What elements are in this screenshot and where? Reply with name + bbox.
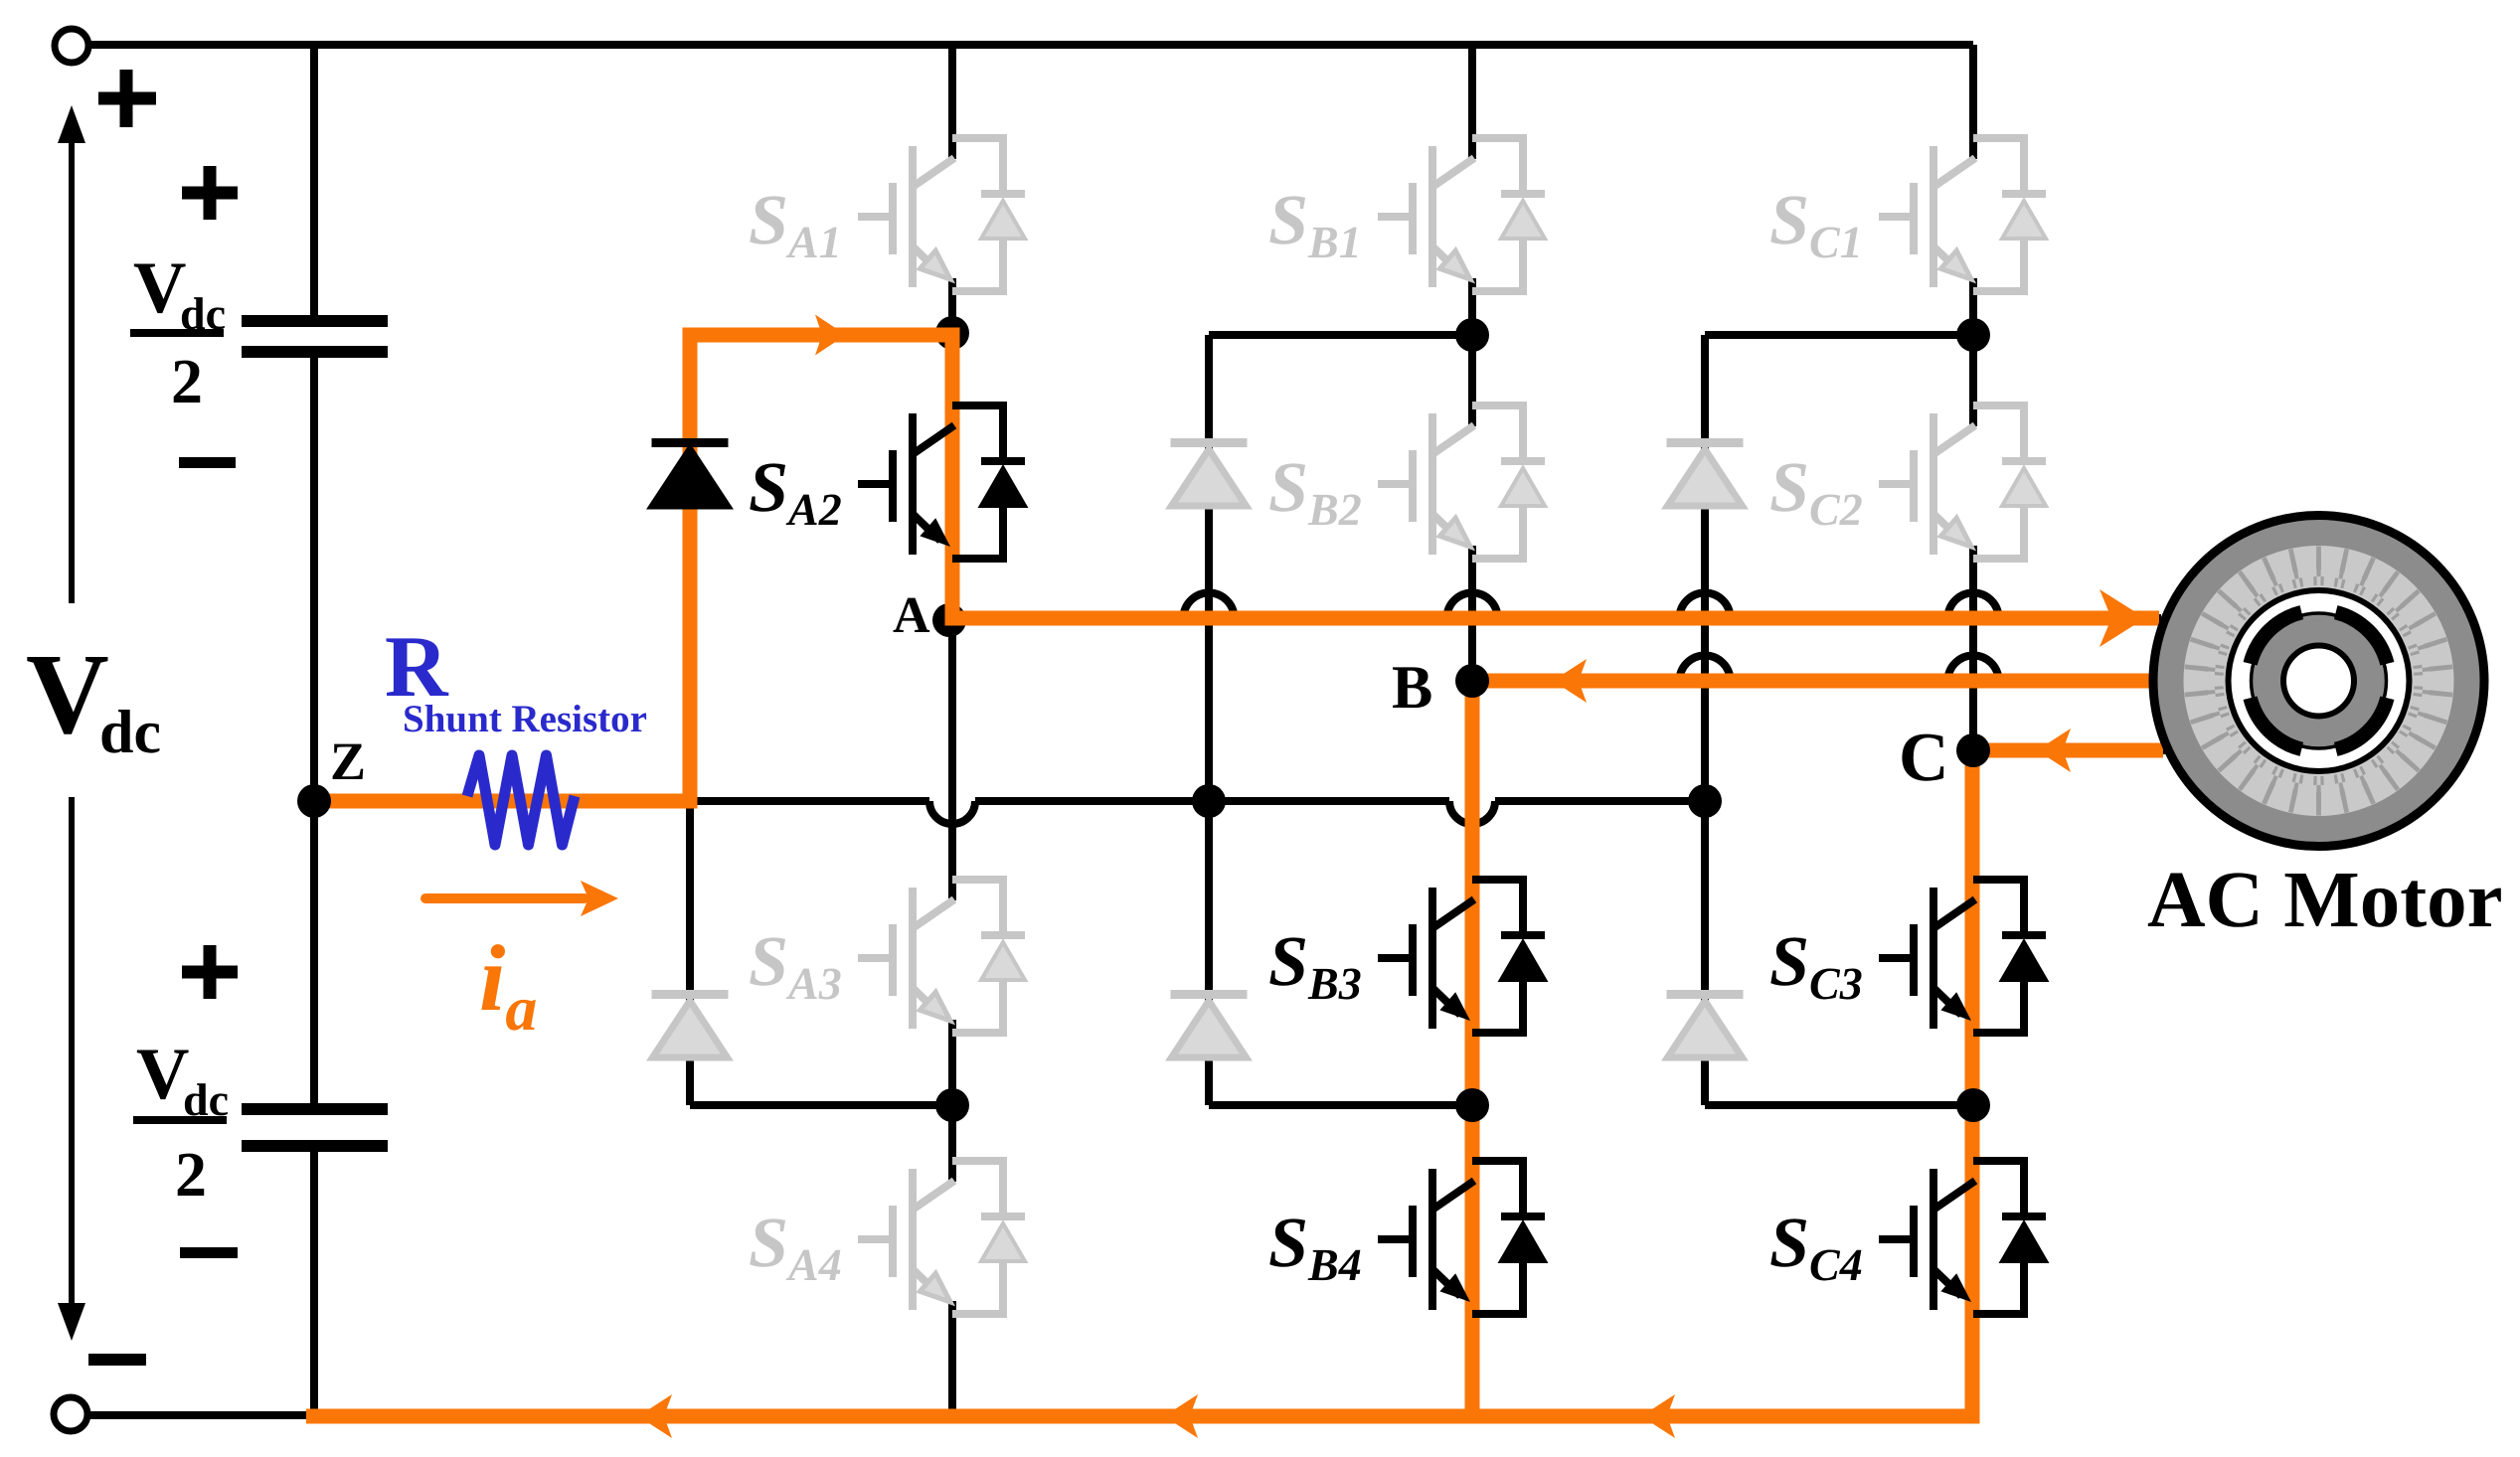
svg-text:SC1: SC1	[1769, 180, 1863, 267]
svg-text:dc: dc	[99, 699, 161, 766]
IGBT S_C3	[1879, 880, 2046, 1033]
capacitor C2 (lower Vdc/2)	[242, 1103, 388, 1152]
IGBT S_B1	[1378, 138, 1545, 291]
wire hop A-line at 1216	[1184, 593, 1235, 618]
node at (1985,755)	[1956, 733, 1990, 767]
node at (958,337)	[935, 316, 969, 350]
wire bottom bus	[87, 1411, 1973, 1419]
IGBT S_B2	[1378, 405, 1545, 559]
svg-text:A: A	[893, 587, 930, 644]
clamp diode DC1	[1667, 443, 1744, 507]
svg-text:SB4: SB4	[1268, 1203, 1362, 1290]
wire clamp bottom jog A	[690, 1101, 952, 1109]
svg-text:SB1: SB1	[1268, 180, 1362, 267]
wire hop neutral at leg A	[929, 801, 975, 824]
IGBT S_C4	[1879, 1161, 2046, 1314]
node at (1985,1112)	[1956, 1088, 1990, 1122]
node at (1481,1112)	[1455, 1088, 1489, 1122]
wire hop A-line at 1985	[1948, 593, 1999, 618]
Vdc arrow lower	[69, 797, 75, 1304]
IGBT S_A4	[858, 1161, 1025, 1314]
orange arrow phase A	[2100, 589, 2145, 647]
svg-text:Shunt Resistor: Shunt Resistor	[403, 698, 647, 740]
clamp diode DC2	[1667, 995, 1744, 1058]
IGBT S_A1	[858, 138, 1025, 291]
IGBT S_C2	[1879, 405, 2046, 559]
orange arrow on top jog	[815, 315, 846, 356]
wire orange path motor to C to bottom return	[306, 750, 2163, 1416]
wire clamp top jog B	[1209, 331, 1472, 339]
IGBT S_C1	[1879, 138, 2046, 291]
wire clamp branch B vertical	[1205, 335, 1213, 1105]
label Vdc main	[26, 631, 161, 766]
minus capacitor C1	[179, 457, 236, 468]
node at (1481,685)	[1455, 664, 1489, 698]
svg-text:C: C	[1899, 720, 1949, 796]
wire clamp top jog C	[1705, 331, 1973, 339]
wire hop A-line at 1715	[1680, 593, 1731, 618]
svg-text:SC2: SC2	[1769, 447, 1863, 535]
label Vdc/2 lower	[133, 1034, 229, 1210]
svg-text:SC3: SC3	[1769, 921, 1863, 1009]
svg-text:V: V	[133, 247, 186, 329]
terminal DC-	[54, 1397, 87, 1431]
clamp diode DA2	[652, 995, 729, 1058]
node A at (958,622)	[932, 603, 966, 637]
wire left DC bus	[310, 45, 318, 1416]
wire leg C vertical segments	[1969, 45, 1977, 1416]
svg-text:SB2: SB2	[1268, 447, 1362, 535]
IGBT S_B4	[1378, 1161, 1545, 1314]
wire clamp top jog A	[690, 331, 952, 339]
wire clamp branch C vertical	[1701, 335, 1709, 1105]
plus capacitor C1	[182, 166, 238, 220]
svg-text:B: B	[1392, 654, 1432, 722]
svg-text:SB3: SB3	[1268, 921, 1362, 1009]
wire hop B-line at 1715	[1680, 656, 1731, 682]
wire clamp bottom jog C	[1705, 1101, 1973, 1109]
IGBT S_A3	[858, 880, 1025, 1033]
node at (1715,806)	[1688, 784, 1722, 818]
svg-text:AC Motor: AC Motor	[2147, 855, 2503, 944]
svg-text:Z: Z	[330, 731, 366, 791]
terminal DC+	[55, 29, 88, 63]
IGBT S_A2	[858, 405, 1025, 559]
node at (1985,337)	[1956, 318, 1990, 352]
svg-text:SA1: SA1	[749, 180, 842, 267]
wire leg B vertical segments	[1468, 45, 1476, 1416]
plus capacitor C2	[182, 945, 238, 999]
node at (1216,806)	[1192, 784, 1226, 818]
clamp diode DA1 (active)	[652, 443, 729, 507]
wire phase C output	[1972, 746, 2165, 754]
wire clamp bottom jog B	[1209, 1101, 1472, 1109]
svg-text:SA2: SA2	[749, 447, 842, 535]
orange arrow bottom at 1171	[1164, 1394, 1198, 1438]
capacitor C1 (upper Vdc/2)	[242, 315, 388, 358]
Vdc arrow upper	[69, 141, 75, 603]
wire orange path motor to B to bottom	[1472, 681, 2151, 1409]
minus near DC- terminal	[88, 1354, 146, 1366]
svg-text:V: V	[26, 631, 109, 758]
node at (316,806)	[297, 784, 331, 818]
svg-text:V: V	[136, 1034, 189, 1115]
wire clamp branch A vertical	[686, 335, 694, 1105]
IGBT S_B3	[1378, 880, 1545, 1033]
wire phase A output	[952, 614, 2161, 622]
wire hop neutral at leg B	[1449, 801, 1495, 824]
label Vdc/2 upper	[130, 247, 226, 416]
orange arrow phase B	[1553, 659, 1587, 703]
wire hop A-line at 1481	[1447, 593, 1498, 618]
svg-text:SA3: SA3	[749, 921, 842, 1009]
wire leg A vertical segments	[948, 45, 956, 1416]
orange arrow bottom at 1651	[1641, 1394, 1675, 1438]
node at (1481,337)	[1455, 318, 1489, 352]
wire top bus	[89, 41, 1973, 49]
wire orange path Z to A to motor	[316, 335, 2159, 801]
clamp diode DB2	[1171, 995, 1248, 1058]
svg-text:SC4: SC4	[1769, 1203, 1863, 1290]
svg-text:2: 2	[175, 1139, 207, 1210]
node at (958,1112)	[935, 1088, 969, 1122]
plus near DC+ terminal	[98, 70, 156, 127]
wire neutral rail with hops	[314, 797, 1705, 805]
arrow ia current	[425, 893, 585, 903]
orange arrow bottom at 642	[638, 1394, 672, 1438]
resistor R shunt (zigzag)	[467, 755, 575, 845]
clamp diode DB1	[1171, 443, 1248, 507]
svg-text:2: 2	[171, 346, 203, 416]
AC motor	[2153, 516, 2484, 847]
orange arrow phase C	[2037, 728, 2071, 772]
svg-text:ia: ia	[479, 925, 537, 1044]
wire hop B-line at 1985	[1948, 656, 1999, 682]
svg-text:SA4: SA4	[749, 1203, 842, 1290]
wire phase B output	[1472, 677, 2153, 685]
minus capacitor C2	[180, 1247, 238, 1258]
